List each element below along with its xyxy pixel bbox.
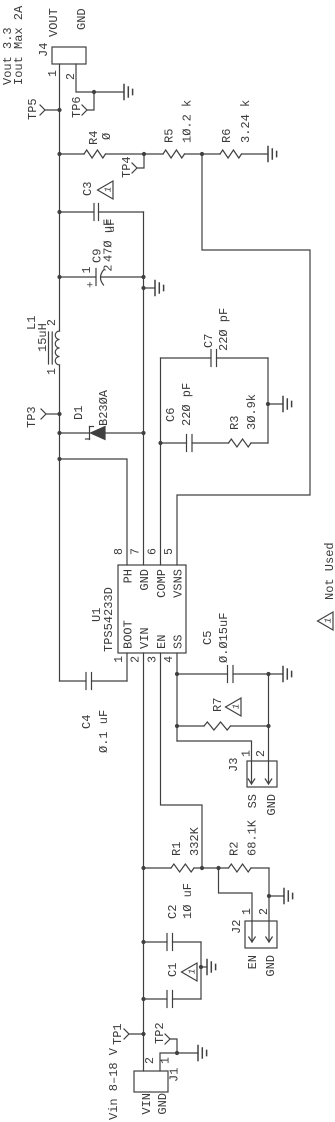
svg-text:GND: GND [265, 794, 279, 816]
svg-text:B23ØA: B23ØA [97, 389, 111, 426]
svg-text:R1: R1 [170, 842, 184, 856]
svg-text:332K: 332K [188, 826, 202, 856]
svg-text:Ø: Ø [100, 133, 114, 140]
svg-text:Iout Max 2A: Iout Max 2A [12, 5, 26, 85]
svg-text:TP3: TP3 [25, 406, 39, 428]
svg-text:SS: SS [172, 635, 186, 649]
svg-text:1Ø uF: 1Ø uF [181, 883, 195, 919]
svg-text:COMP: COMP [155, 569, 169, 598]
svg-text:VOUT: VOUT [47, 8, 61, 37]
svg-text:VSNS: VSNS [172, 569, 186, 598]
svg-text:3.24 k: 3.24 k [239, 100, 253, 143]
svg-text:TPS54233D: TPS54233D [102, 587, 116, 652]
svg-text:TP6: TP6 [70, 96, 84, 118]
svg-text:15uH: 15uH [36, 323, 50, 352]
svg-text:2: 2 [130, 656, 143, 663]
svg-text:R7: R7 [211, 698, 225, 712]
svg-text:Ø.1 uF: Ø.1 uF [97, 710, 111, 753]
svg-text:2: 2 [65, 73, 78, 80]
svg-text:J3: J3 [227, 758, 241, 772]
svg-text:TP4: TP4 [120, 156, 134, 178]
svg-text:Not Used: Not Used [323, 542, 335, 600]
svg-text:5: 5 [163, 548, 176, 555]
svg-text:2: 2 [103, 265, 116, 272]
svg-text:1: 1 [232, 704, 242, 709]
svg-text:R2: R2 [228, 842, 242, 856]
svg-text:1: 1 [46, 368, 59, 375]
svg-text:J4: J4 [37, 43, 51, 57]
svg-text:C2: C2 [166, 905, 180, 919]
svg-text:PH: PH [122, 569, 136, 583]
svg-text:VIN: VIN [140, 1093, 154, 1115]
svg-text:1: 1 [241, 750, 254, 757]
svg-text:3Ø.9k: 3Ø.9k [245, 394, 259, 430]
svg-text:+: + [86, 281, 98, 288]
svg-text:7: 7 [130, 548, 143, 555]
svg-text:8: 8 [113, 548, 126, 555]
svg-text:EN: EN [246, 955, 260, 969]
svg-text:EN: EN [155, 635, 169, 649]
svg-text:47Ø uF: 47Ø uF [102, 219, 116, 262]
svg-text:1: 1 [81, 267, 94, 274]
svg-text:R6: R6 [220, 129, 234, 143]
svg-text:BOOT: BOOT [122, 620, 136, 649]
svg-text:22Ø pF: 22Ø pF [180, 383, 194, 426]
svg-text:2: 2 [255, 750, 268, 757]
svg-text:TP5: TP5 [26, 98, 40, 120]
svg-text:SS: SS [246, 794, 260, 808]
svg-text:D1: D1 [72, 406, 86, 420]
svg-text:1: 1 [104, 187, 114, 192]
svg-text:C4: C4 [80, 715, 94, 729]
svg-text:VIN: VIN [138, 627, 152, 649]
svg-text:C1: C1 [166, 963, 180, 977]
svg-text:1: 1 [188, 969, 198, 974]
svg-text:C7: C7 [202, 334, 216, 348]
svg-text:22Ø pF: 22Ø pF [217, 308, 231, 351]
svg-text:GND: GND [264, 955, 278, 977]
svg-text:TP2: TP2 [153, 1022, 167, 1044]
svg-text:2: 2 [46, 319, 59, 326]
svg-text:1: 1 [47, 70, 60, 77]
svg-text:2: 2 [258, 908, 271, 915]
svg-text:6: 6 [147, 548, 160, 555]
svg-text:1Ø.2 k: 1Ø.2 k [181, 100, 195, 143]
svg-text:J1: J1 [168, 1068, 182, 1082]
svg-text:C5: C5 [201, 631, 215, 645]
svg-text:3: 3 [147, 656, 160, 663]
svg-text:R3: R3 [228, 416, 242, 430]
svg-text:1: 1 [160, 1057, 173, 1064]
svg-text:R4: R4 [87, 131, 101, 145]
svg-text:C3: C3 [81, 182, 95, 196]
svg-text:GND: GND [156, 1093, 170, 1115]
svg-text:Vin 8–18 V: Vin 8–18 V [107, 1047, 121, 1120]
svg-text:C6: C6 [164, 408, 178, 422]
svg-text:1: 1 [113, 656, 126, 663]
svg-text:R5: R5 [163, 129, 177, 143]
svg-text:Ø.Ø15uF: Ø.Ø15uF [217, 613, 231, 663]
svg-text:GND: GND [75, 8, 89, 30]
svg-text:68.1K: 68.1K [246, 819, 260, 856]
svg-text:TP1: TP1 [111, 1023, 125, 1045]
svg-text:2: 2 [144, 1057, 157, 1064]
svg-text:4: 4 [163, 656, 176, 663]
svg-text:J2: J2 [230, 920, 244, 934]
svg-text:GND: GND [138, 569, 152, 591]
svg-text:1: 1 [324, 618, 334, 623]
svg-text:1: 1 [241, 908, 254, 915]
